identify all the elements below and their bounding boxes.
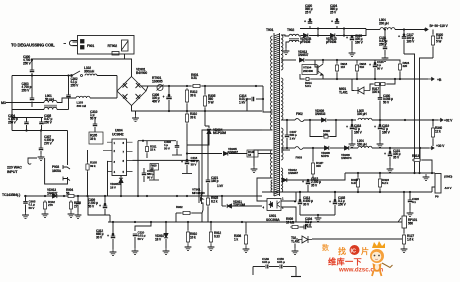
thermistor RT901 (157, 85, 164, 91)
wire (256, 98, 263, 100)
wire (379, 84, 381, 98)
wire (330, 147, 344, 149)
ground under C905 (22, 212, 29, 218)
zener VD910 (164, 233, 168, 237)
wire lower box (88, 196, 110, 215)
wire (112, 222, 114, 236)
resistor R311 (145, 145, 148, 154)
wire (31, 76, 33, 99)
wire (87, 150, 89, 162)
wire (343, 29, 345, 36)
wire (77, 196, 79, 202)
junction (317, 34, 319, 36)
capacitor C326 (408, 200, 413, 202)
wire primary top (263, 110, 273, 112)
wire (175, 213, 177, 222)
wire (309, 26, 311, 29)
capacitor C335s (333, 202, 338, 204)
wire (207, 207, 209, 222)
wire (286, 42, 289, 48)
wire (26, 118, 28, 123)
arrow B+ output (422, 28, 428, 31)
svg-text:+: + (369, 63, 371, 67)
wire opto pin2 (281, 207, 296, 222)
earth hook (28, 158, 37, 164)
wire (87, 172, 89, 196)
diode VD913s (299, 58, 303, 62)
capacitor C123 (373, 65, 378, 67)
wire (350, 147, 358, 149)
resistor R310 (185, 112, 188, 124)
wire (168, 86, 170, 97)
svg-text:VD908NXPS: VD908NXPS (321, 151, 330, 158)
junction (186, 85, 188, 87)
wire (168, 100, 170, 111)
wire from P901 lower (45, 158, 68, 184)
junction (309, 119, 311, 121)
wire (351, 120, 353, 127)
wire (109, 215, 111, 222)
junction (150, 221, 152, 223)
wire (375, 60, 400, 62)
T902 top winding (289, 34, 299, 36)
wire secondary ground rail (262, 191, 432, 193)
wire (409, 203, 411, 210)
wire (176, 141, 178, 146)
junction (389, 147, 391, 149)
wire (286, 138, 288, 148)
wire (207, 183, 209, 196)
wire (307, 226, 312, 228)
wire (288, 179, 308, 181)
junction (286, 119, 288, 121)
wire (186, 140, 188, 162)
connector CON1 to degaussing coil (64, 41, 78, 46)
wire (387, 79, 395, 84)
capacitor C905 (23, 202, 28, 204)
wire (317, 29, 319, 36)
wire (294, 244, 296, 249)
svg-text:M3: M3 (1, 101, 6, 105)
wire (31, 73, 33, 76)
junction (262, 98, 264, 100)
svg-text:TO DEGAUSSING COIL: TO DEGAUSSING COIL (11, 43, 55, 48)
svg-text:+: + (302, 180, 304, 184)
wire (221, 196, 223, 206)
capacitor C113m (185, 162, 190, 164)
wire (245, 222, 247, 233)
junction (104, 195, 106, 197)
capacitor C303 (30, 98, 35, 100)
junction (286, 147, 288, 149)
junction (204, 110, 206, 112)
junction (312, 147, 314, 149)
capacitor C149 (266, 265, 268, 269)
resistor R318 (356, 177, 359, 189)
wire bottom rail left (24, 195, 110, 197)
svg-text:R317100 k: R317100 k (372, 87, 380, 94)
junction (403, 28, 405, 30)
junction (335, 119, 337, 121)
wire base (315, 60, 318, 67)
diode VD904 (207, 129, 211, 133)
resistor R127 (402, 233, 405, 246)
diode VD913 1N4937 (52, 194, 56, 198)
svg-text:+: + (107, 234, 109, 238)
junction (299, 191, 301, 193)
junction (356, 78, 358, 80)
wire (310, 120, 322, 137)
wire (307, 185, 309, 192)
svg-text:数: 数 (322, 243, 330, 252)
capacitor C311 (142, 173, 147, 175)
wire C149 bracket left (253, 266, 265, 268)
ground under C131t (382, 55, 389, 61)
T901 secondary winding 1 (281, 35, 283, 70)
capacitor C305 (39, 122, 44, 124)
T901 primary winding (271, 86, 273, 130)
wire (309, 18, 311, 22)
ground under C307 (38, 154, 45, 160)
wire (305, 59, 315, 61)
wire (11, 110, 13, 131)
svg-text:IC: IC (351, 249, 357, 255)
wire (389, 157, 391, 166)
wire (299, 192, 301, 202)
wire (432, 139, 434, 146)
wire (31, 102, 33, 108)
wire (334, 192, 336, 202)
wire (186, 124, 188, 141)
resistor R910 (186, 230, 189, 244)
wire down to primary (262, 86, 264, 110)
wire drain (202, 130, 262, 192)
wire (303, 147, 324, 149)
wire (327, 119, 356, 121)
T901 secondary winding 2 (281, 78, 283, 120)
svg-text:(GND): (GND) (444, 175, 452, 179)
wire B+ rail (395, 29, 425, 31)
junction (255, 85, 257, 87)
wire (281, 35, 289, 36)
junction (317, 27, 319, 29)
wire (336, 35, 352, 37)
capacitor C312 (111, 236, 116, 238)
ground under R110 (68, 211, 75, 217)
wire (204, 108, 206, 126)
wire (205, 126, 209, 128)
wire (300, 226, 304, 228)
T901 secondary winding 3 (281, 128, 283, 160)
capacitor C110 (133, 234, 138, 236)
wire (41, 125, 43, 131)
wire (357, 173, 359, 177)
svg-text:VD9115μF5408: VD9115μF5408 (326, 37, 337, 44)
ground feedback winding (251, 166, 258, 172)
wire (299, 35, 301, 37)
wire (229, 153, 247, 155)
capacitor C150 (280, 265, 282, 269)
wire (153, 170, 155, 180)
wire ground return 2 (420, 58, 434, 173)
svg-text:+: + (294, 200, 296, 204)
ground under C318 (349, 141, 356, 147)
svg-text:R313: R313 (412, 154, 419, 158)
wire (104, 209, 106, 215)
junction (134, 221, 136, 223)
junction (241, 221, 243, 223)
wire (187, 134, 209, 145)
arrow +92V output (437, 119, 443, 122)
capacitor C120 (350, 38, 355, 40)
U904 pins (103, 142, 133, 171)
inductor L204 (358, 146, 372, 148)
junction (394, 78, 396, 80)
capacitor C319 (378, 127, 383, 129)
choke L901 top winding (44, 100, 57, 102)
wire (389, 148, 391, 154)
ground under C326 (407, 210, 414, 216)
wire (40, 131, 42, 149)
wire (370, 84, 373, 91)
watermark dzsc logo (322, 243, 384, 274)
wire to R313 (412, 148, 420, 160)
wire (134, 237, 136, 248)
wire (356, 60, 358, 63)
inductor L304 (380, 28, 395, 30)
junction (418, 172, 420, 174)
svg-text:C321180 p: C321180 p (211, 176, 219, 183)
wire (357, 189, 359, 192)
wire to bridge (90, 97, 117, 99)
svg-text:+: + (162, 95, 164, 99)
capacitor C313s (298, 202, 303, 204)
T901 feedback winding (271, 150, 273, 178)
wire (26, 125, 28, 131)
svg-text:+: + (346, 125, 348, 129)
diode VD911 (227, 204, 231, 208)
wire mid rail (138, 140, 176, 142)
MOSFET VT901 (199, 192, 203, 210)
capacitor C300 (30, 70, 35, 72)
resistor R324 (398, 62, 401, 72)
resistor R140 box (247, 150, 258, 157)
svg-text:F902: F902 (296, 112, 303, 116)
resistor R916 (355, 63, 358, 73)
wire gate drive (133, 159, 200, 161)
T902 bottom winding (289, 40, 299, 42)
wire HV rail to transformer (202, 85, 263, 87)
junction (112, 221, 114, 223)
wire (337, 59, 357, 61)
wire (104, 196, 106, 206)
wire (384, 30, 386, 48)
fuse F901 contacts (81, 40, 85, 50)
svg-text:F903: F903 (296, 156, 303, 160)
wire (31, 59, 33, 70)
wire ground return 1 (404, 54, 415, 173)
wire (201, 213, 203, 222)
ground under C312 (110, 249, 117, 255)
wire (94, 117, 96, 124)
svg-text:+: + (304, 20, 306, 24)
junction (399, 78, 401, 80)
wire (232, 205, 262, 207)
capacitor C304 (24, 122, 29, 124)
junction (165, 221, 167, 223)
wire under U904 (110, 195, 146, 197)
T901 winding lower (271, 180, 273, 192)
wire -6.3V (432, 187, 435, 192)
svg-text:RT902: RT902 (108, 44, 118, 48)
arrow +30V output (428, 147, 434, 150)
svg-text:R9258.2 k: R9258.2 k (211, 196, 218, 203)
svg-text:+: + (181, 160, 183, 164)
wire (379, 101, 381, 121)
wire collector (322, 60, 324, 64)
junction (379, 191, 381, 193)
wire (204, 86, 206, 94)
resistor R922h (181, 211, 192, 214)
junction (379, 119, 381, 121)
wire (25, 205, 27, 213)
wire (384, 50, 386, 55)
capacitor C137 (285, 135, 290, 137)
wire long bottom rail (108, 221, 404, 223)
wire from P901 upper (67, 131, 69, 166)
connector P9 (435, 174, 441, 194)
junction (186, 152, 188, 154)
wire (379, 120, 381, 127)
resistor R312 (185, 88, 188, 104)
wire VD905 tap (262, 153, 273, 155)
wire (336, 26, 338, 29)
ground under C120 (349, 50, 356, 56)
svg-text:-6.3 V: -6.3 V (444, 186, 452, 190)
wire (40, 151, 42, 154)
wire (176, 149, 178, 155)
resistor R904 (66, 194, 76, 197)
wire HV rail (148, 85, 191, 87)
wire degauss branch (31, 58, 125, 60)
ground under C319 (377, 141, 384, 147)
wire left edge vertical (11, 76, 13, 131)
capacitor C310 (93, 124, 98, 126)
ground on primary rail (132, 115, 139, 121)
wire (334, 205, 336, 215)
wire cap rail lower (12, 130, 68, 132)
wire (379, 173, 381, 177)
svg-text:R1271.6 k: R1271.6 k (407, 234, 414, 241)
wire (432, 120, 434, 126)
svg-text:+92 V: +92 V (444, 119, 453, 123)
junction (176, 195, 178, 197)
wire cap rail upper (12, 117, 43, 119)
wire (374, 68, 376, 79)
diode VD908 (324, 146, 328, 150)
wire (336, 18, 338, 22)
wire opto pin1 (281, 192, 296, 201)
wire to RP101 (403, 192, 405, 216)
wire up (137, 141, 139, 161)
wire pin3 down (106, 161, 109, 196)
zener VD905A (119, 178, 123, 182)
capacitor C315 (306, 182, 311, 184)
svg-text:T901: T901 (266, 28, 274, 32)
wire (94, 127, 96, 132)
wire (186, 104, 188, 112)
wire to bridge left (97, 75, 117, 77)
resistor R105b (86, 162, 89, 172)
wire bridge to RT901 (141, 86, 148, 91)
wire (146, 141, 148, 145)
junction (413, 172, 415, 174)
choke L901 bottom winding (44, 107, 57, 109)
shunt regulator N902 TL431 (298, 236, 312, 243)
wire (351, 41, 353, 50)
wire (366, 29, 380, 31)
wire (379, 189, 381, 192)
wire (222, 205, 226, 207)
wire (351, 36, 353, 39)
junction (186, 195, 188, 197)
wire winding to F902 (281, 119, 295, 121)
wire +B rail (323, 78, 428, 80)
fusible resistor F902 (295, 118, 304, 121)
junction (25, 129, 27, 131)
junction (357, 172, 359, 174)
wire (186, 165, 188, 173)
wire (312, 176, 314, 180)
wire M3 line (6, 102, 44, 104)
capacitor C317 (402, 37, 407, 39)
wire (283, 266, 296, 268)
capacitor C321 (206, 180, 211, 182)
junction (146, 195, 148, 197)
resistor R317 (373, 82, 387, 85)
wire top cap bus (300, 28, 366, 30)
svg-text:TC143584(-): TC143584(-) (2, 193, 20, 197)
capacitor C330 (378, 98, 383, 100)
wire feedback to opto (257, 178, 273, 201)
IC U904 UC3842 (112, 139, 127, 176)
wire (192, 212, 202, 214)
junction (317, 214, 319, 216)
junction (137, 195, 139, 197)
wire to L304 (352, 29, 366, 36)
junction (210, 221, 212, 223)
wire (323, 59, 337, 61)
svg-text:1 kV: 1 kV (217, 184, 224, 188)
svg-text:找: 找 (338, 246, 346, 256)
capacitor C324 (335, 22, 340, 24)
trimmer RP101 (398, 216, 407, 228)
wire feedback to RP101 (312, 238, 404, 240)
wire winding to L306 (281, 149, 290, 151)
wire (281, 179, 302, 181)
ground under R912 (208, 244, 215, 250)
wire (25, 196, 27, 202)
resistor R313 (412, 158, 422, 161)
capacitor C334 (304, 225, 306, 230)
diode VD905 (223, 151, 227, 155)
junction (409, 191, 411, 193)
bridge rectifier VD901 (117, 77, 146, 106)
wire (304, 119, 321, 121)
wire (374, 60, 376, 65)
junction (44, 195, 46, 197)
svg-text:维库一下: 维库一下 (328, 257, 362, 267)
